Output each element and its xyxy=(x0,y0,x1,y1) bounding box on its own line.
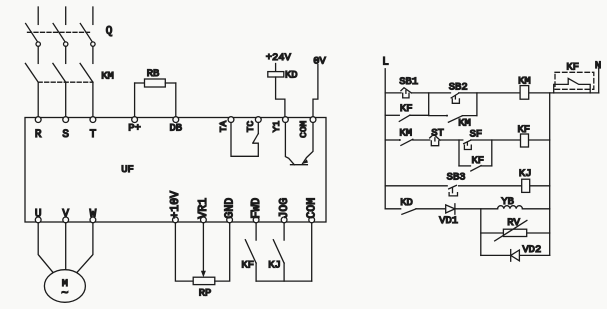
svg-text:SB1: SB1 xyxy=(399,76,418,88)
wire V to motor xyxy=(65,223,67,270)
svg-text:YB: YB xyxy=(501,196,514,208)
svg-text:SB2: SB2 xyxy=(449,81,468,93)
terminal V xyxy=(63,217,69,223)
rail L xyxy=(384,69,386,209)
motor M xyxy=(44,270,85,303)
potentiometer RP xyxy=(175,223,193,281)
wire supply stub L3 xyxy=(92,7,94,24)
contact KF (FWD) xyxy=(255,223,257,240)
diode VD2 xyxy=(510,250,512,262)
svg-text:RP: RP xyxy=(199,287,212,299)
terminal TC xyxy=(255,117,261,123)
svg-text:UF: UF xyxy=(121,164,134,176)
svg-text:S: S xyxy=(62,129,69,141)
svg-text:SF: SF xyxy=(470,129,483,141)
svg-text:V: V xyxy=(62,209,69,221)
svg-text:KM: KM xyxy=(101,70,114,82)
svg-text:DB: DB xyxy=(169,123,182,135)
wire branch node b xyxy=(476,93,478,116)
svg-text:KM: KM xyxy=(518,75,531,87)
wire FWD/JOG common to COM xyxy=(256,280,312,282)
svg-text:KF: KF xyxy=(400,103,413,115)
breaker Q gang dashed link xyxy=(28,31,90,33)
relay output contact TA-TC xyxy=(231,123,258,157)
contactor KM pole 2 blade xyxy=(53,63,66,82)
svg-text:JOG: JOG xyxy=(278,198,291,219)
wire Q to KM phase 2 xyxy=(65,46,67,63)
wire W to motor xyxy=(78,223,93,272)
svg-text:0V: 0V xyxy=(313,55,326,67)
terminal JOG xyxy=(281,217,287,223)
svg-text:SB3: SB3 xyxy=(447,171,466,183)
pushbutton ST (NC) xyxy=(430,134,440,140)
svg-text:N: N xyxy=(595,60,601,72)
svg-text:T: T xyxy=(90,129,97,141)
wire rung 4 xyxy=(385,208,401,210)
transistor output Y1-COM xyxy=(285,123,294,165)
varistor RV branch wire xyxy=(481,232,550,234)
contact KF parallel branch xyxy=(385,114,399,116)
wire Q to KM phase 3 xyxy=(92,46,94,63)
svg-text:KJ: KJ xyxy=(519,168,532,180)
svg-text:Y1: Y1 xyxy=(271,121,282,133)
wire KM to S xyxy=(65,82,67,117)
coil KF xyxy=(521,134,529,147)
resistor RB xyxy=(134,83,136,117)
terminal TA xyxy=(228,117,234,123)
svg-text:TC: TC xyxy=(245,121,256,133)
svg-text:RV: RV xyxy=(507,217,520,229)
coil KM xyxy=(520,86,529,100)
breaker Q pole 3 contact circle xyxy=(91,42,95,46)
pushbutton SB3 (NO) xyxy=(449,185,457,189)
terminal VR1 xyxy=(201,217,207,223)
inverter UF box xyxy=(25,118,326,223)
contact KF lower branch xyxy=(459,165,471,167)
wire rung 3 xyxy=(385,185,447,187)
contactor KM gang dashed link xyxy=(38,81,93,83)
svg-text:KF: KF xyxy=(566,62,579,74)
contact KD xyxy=(402,209,416,214)
contactor KM pole 3 blade xyxy=(80,63,93,82)
svg-text:U: U xyxy=(35,209,42,221)
terminal T xyxy=(90,117,96,123)
svg-text:~: ~ xyxy=(61,287,68,301)
svg-text:R: R xyxy=(35,129,42,141)
svg-text:VD1: VD1 xyxy=(439,215,458,227)
varistor RV xyxy=(503,229,526,236)
breaker Q pole 1 blade xyxy=(26,24,38,42)
coil KJ xyxy=(522,179,530,192)
svg-text:W: W xyxy=(90,209,97,221)
breaker Q pole 2 contact circle xyxy=(63,42,67,46)
wire branch node a xyxy=(428,93,430,115)
svg-text:COM: COM xyxy=(298,120,309,137)
contact KM rung2 xyxy=(399,139,401,141)
pushbutton SB1 (NC) xyxy=(401,88,412,93)
svg-text:L: L xyxy=(382,57,389,69)
wire KM to R xyxy=(37,82,39,117)
breaker Q pole 1 contact circle xyxy=(36,42,40,46)
svg-text:GND: GND xyxy=(223,198,236,219)
svg-text:P+: P+ xyxy=(128,123,141,135)
svg-text:+24V: +24V xyxy=(266,52,292,64)
wire supply stub L2 xyxy=(65,7,67,24)
breaker Q pole 3 blade xyxy=(80,24,92,42)
pushbutton SF (NO) xyxy=(464,140,471,144)
bus right vertical xyxy=(549,93,551,256)
svg-text:KF: KF xyxy=(241,259,254,271)
terminal Y1 xyxy=(283,117,289,123)
wire parallel box verticals xyxy=(458,140,460,166)
terminal +10V xyxy=(173,217,179,223)
terminal U xyxy=(35,217,41,223)
contact KJ (JOG) xyxy=(283,223,285,240)
rail N xyxy=(598,69,600,93)
svg-text:KD: KD xyxy=(400,197,413,209)
svg-text:TA: TA xyxy=(218,121,229,133)
terminal DB xyxy=(173,117,179,123)
terminal FWD xyxy=(253,217,259,223)
svg-text:KF: KF xyxy=(517,124,530,136)
terminal COM top xyxy=(310,117,316,123)
terminal COM bottom xyxy=(309,217,315,223)
svg-text:RB: RB xyxy=(147,68,160,80)
terminal P+ xyxy=(132,117,138,123)
breaker Q pole 2 blade xyxy=(53,24,65,42)
wiper VR1 arrow xyxy=(202,223,204,272)
diode VD2 branch wire xyxy=(481,254,550,256)
svg-text:VD2: VD2 xyxy=(522,244,541,256)
wire rung 2 xyxy=(385,139,400,141)
diode VD1 xyxy=(446,205,455,213)
terminal GND xyxy=(227,217,233,223)
wire U to motor xyxy=(38,223,52,272)
contact KM parallel xyxy=(429,115,447,117)
pushbutton SB2 (NO) xyxy=(451,93,459,98)
wire Q to KM phase 1 xyxy=(37,46,39,63)
wire 0V to COM xyxy=(313,65,318,117)
svg-text:KF: KF xyxy=(471,155,484,167)
terminal W xyxy=(90,217,96,223)
svg-text:ST: ST xyxy=(431,128,444,140)
svg-text:KD: KD xyxy=(285,70,298,82)
wire rung 1 xyxy=(385,92,401,94)
svg-text:+10V: +10V xyxy=(169,191,182,219)
svg-text:Q: Q xyxy=(106,26,113,38)
relay coil KD xyxy=(275,64,277,72)
svg-text:KJ: KJ xyxy=(268,259,281,271)
contact KF in dashed enclosure xyxy=(555,72,594,89)
terminal R xyxy=(35,117,41,123)
wire supply stub L1 xyxy=(37,7,39,24)
svg-text:KM: KM xyxy=(399,128,412,140)
inductor YB xyxy=(498,206,523,209)
svg-text:VR1: VR1 xyxy=(197,198,210,219)
wire KD to Y1 xyxy=(276,77,285,117)
svg-text:FWD: FWD xyxy=(250,198,263,219)
contactor KM pole 1 blade xyxy=(25,63,38,82)
svg-text:COM: COM xyxy=(306,198,319,219)
terminal S xyxy=(63,117,69,123)
wire KM to T xyxy=(92,82,94,117)
wire junction vertical xyxy=(480,209,482,256)
